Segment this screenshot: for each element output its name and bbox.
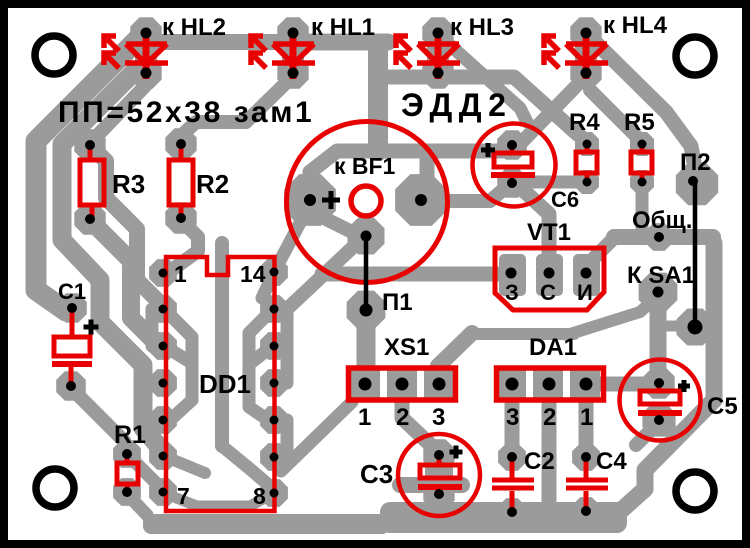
svg-text:к HL1: к HL1 xyxy=(311,14,375,41)
svg-text:К SA1: К SA1 xyxy=(627,262,695,289)
svg-text:DA1: DA1 xyxy=(529,334,577,361)
svg-text:к BF1: к BF1 xyxy=(334,153,396,179)
svg-text:3: 3 xyxy=(432,404,445,431)
svg-text:Общ.: Общ. xyxy=(632,207,692,234)
svg-text:П1: П1 xyxy=(382,289,413,316)
svg-text:С: С xyxy=(540,280,556,305)
svg-text:ЭДД2: ЭДД2 xyxy=(401,87,512,123)
svg-text:C2: C2 xyxy=(524,448,555,475)
svg-text:3: 3 xyxy=(506,404,519,431)
svg-text:C3: C3 xyxy=(360,459,393,489)
svg-text:VT1: VT1 xyxy=(527,219,571,246)
svg-text:7: 7 xyxy=(177,483,190,509)
svg-text:R4: R4 xyxy=(569,109,600,136)
svg-text:R5: R5 xyxy=(624,109,655,136)
svg-text:8: 8 xyxy=(253,483,266,509)
svg-text:C6: C6 xyxy=(551,187,579,212)
svg-text:И: И xyxy=(577,280,593,305)
svg-text:14: 14 xyxy=(240,261,266,287)
svg-text:З: З xyxy=(505,280,519,305)
svg-text:к HL3: к HL3 xyxy=(450,14,514,41)
svg-text:C5: C5 xyxy=(707,393,738,420)
svg-text:XS1: XS1 xyxy=(384,334,429,361)
svg-text:ПП=52х38 зам1: ПП=52х38 зам1 xyxy=(58,96,314,129)
svg-text:C4: C4 xyxy=(596,448,627,475)
svg-text:к HL2: к HL2 xyxy=(162,14,226,41)
svg-text:R3: R3 xyxy=(112,169,145,199)
svg-text:C1: C1 xyxy=(58,279,86,304)
svg-text:2: 2 xyxy=(543,404,556,431)
svg-text:R2: R2 xyxy=(196,169,229,199)
svg-text:П2: П2 xyxy=(680,149,711,176)
svg-text:1: 1 xyxy=(174,261,187,287)
svg-text:1: 1 xyxy=(358,404,371,431)
svg-text:к HL4: к HL4 xyxy=(603,12,668,39)
svg-text:DD1: DD1 xyxy=(199,369,251,399)
svg-text:2: 2 xyxy=(396,404,409,431)
svg-text:1: 1 xyxy=(580,404,593,431)
svg-text:R1: R1 xyxy=(114,421,146,449)
